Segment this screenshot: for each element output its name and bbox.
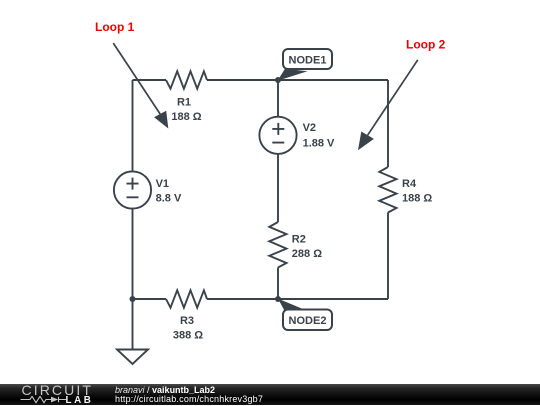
CircuitLab logo wordmark LAB bbox=[66, 396, 94, 406]
wire left upper bbox=[132, 80, 134, 172]
svg-text:R1: R1 bbox=[177, 97, 191, 109]
resistor R3 bbox=[166, 290, 207, 307]
svg-text:Loop 1: Loop 1 bbox=[95, 20, 135, 34]
footer url line bbox=[115, 395, 263, 404]
wire bottom-left segment bbox=[133, 298, 167, 300]
wire right upper bbox=[387, 80, 389, 167]
voltage source V1 bbox=[114, 171, 151, 208]
svg-text:R2: R2 bbox=[292, 234, 306, 246]
svg-text:V2: V2 bbox=[303, 122, 316, 134]
svg-text:288 Ω: 288 Ω bbox=[292, 248, 322, 260]
wire middle upper bbox=[277, 80, 279, 117]
svg-text:188 Ω: 188 Ω bbox=[402, 192, 432, 204]
wire top-right segment bbox=[207, 79, 388, 81]
footer bar bbox=[0, 384, 540, 405]
NODE1 callout tail bbox=[278, 69, 308, 81]
wire right lower bbox=[387, 213, 389, 300]
svg-text:V1: V1 bbox=[156, 178, 169, 190]
NODE1 callout box bbox=[283, 49, 332, 69]
wire to ground bbox=[132, 299, 134, 350]
annotation arrow Loop 2 bbox=[358, 60, 418, 150]
label R4 bbox=[402, 178, 432, 204]
svg-text:R3: R3 bbox=[180, 315, 194, 327]
wire bottom-right segment bbox=[207, 298, 388, 300]
svg-text:Loop 2: Loop 2 bbox=[406, 38, 446, 52]
voltage source V2 bbox=[259, 117, 296, 154]
wire left lower bbox=[132, 209, 134, 299]
node junction dot bottom-left bbox=[130, 296, 136, 302]
label V1 bbox=[156, 178, 182, 205]
NODE2 callout box bbox=[283, 310, 332, 331]
NODE2 callout tail bbox=[278, 299, 304, 311]
svg-text:8.8 V: 8.8 V bbox=[156, 193, 182, 205]
wire middle lower bbox=[277, 268, 279, 300]
label R3 bbox=[173, 315, 203, 342]
svg-text:388 Ω: 388 Ω bbox=[173, 330, 203, 342]
label R1 bbox=[171, 97, 201, 123]
svg-text:188 Ω: 188 Ω bbox=[171, 111, 201, 123]
node junction dot NODE1 bbox=[275, 77, 281, 83]
label V2 bbox=[303, 122, 335, 150]
annotation arrow Loop 1 bbox=[113, 43, 168, 128]
footer attribution line bbox=[115, 386, 215, 395]
CircuitLab logo wordmark CIRCUIT bbox=[22, 383, 93, 397]
svg-text:1.88 V: 1.88 V bbox=[303, 138, 335, 150]
svg-text:NODE2: NODE2 bbox=[289, 315, 327, 327]
wire top-left segment bbox=[133, 79, 167, 81]
wire middle mid bbox=[277, 154, 279, 222]
label R2 bbox=[292, 234, 322, 260]
svg-text:R4: R4 bbox=[402, 178, 417, 190]
node junction dot NODE2 bbox=[275, 296, 281, 302]
resistor R4 bbox=[379, 167, 396, 213]
ground bbox=[117, 350, 148, 365]
svg-text:NODE1: NODE1 bbox=[289, 54, 327, 66]
resistor R1 bbox=[166, 71, 207, 88]
resistor R2 bbox=[269, 222, 286, 268]
CircuitLab logo wire-resistor-diode glyph bbox=[20, 396, 68, 404]
